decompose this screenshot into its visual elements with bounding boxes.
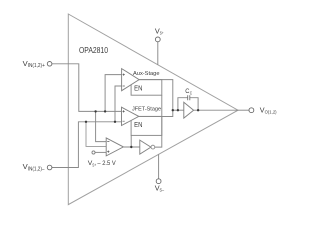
capacitor CC feedback loop right leg [190,98,198,111]
inverter [140,140,151,154]
terminal VIN- [47,165,52,170]
terminal VO [249,108,254,113]
wire comparator output up to JFET EN [130,135,132,147]
buffer amplifier [184,102,194,118]
wire comparator mid input from VIN- node [86,122,106,147]
wire output to terminal [238,109,249,111]
EN box (JFET-Stage) [131,116,162,135]
wire summing node to buffer input [173,109,184,111]
input polarity marks Aux [123,74,125,87]
wire inverter output up to Aux EN [155,95,162,147]
svg-text:O(1,2): O(1,2) [265,110,277,116]
svg-text:IN(1,2)+: IN(1,2)+ [28,63,45,69]
svg-text:OPA2810: OPA2810 [79,45,108,55]
svg-text:S+: S+ [160,31,164,37]
svg-text:Aux-Stage: Aux-Stage [133,71,160,77]
wire Aux + input from node [105,75,122,112]
wire VS- supply lead [158,154,160,179]
svg-text:S+: S+ [92,163,96,168]
input polarity marks comparator [107,142,109,153]
wire VIN+ to JFET + input [52,64,122,112]
capacitor C_C plates [188,95,190,100]
wire VS+ supply lead [157,42,159,65]
wire comparator upper input from VIN+ node [96,111,107,141]
svg-text:C: C [190,90,192,95]
svg-text:JFET-Stage: JFET-Stage [132,107,162,113]
svg-text:EN: EN [134,120,142,129]
wire Aux - input from node [115,86,122,122]
inverter bubble [151,145,155,149]
wire Aux output down to summing node [139,80,173,111]
EN box (Aux-Stage) [131,80,162,96]
wire buffer output to big apex [194,109,238,111]
terminal VIN+ [47,62,52,67]
input polarity marks JFET [123,110,125,121]
junction node dots [94,110,96,112]
svg-text:S–: S– [160,188,165,194]
amplifier Aux-Stage [122,69,140,91]
svg-text:EN: EN [134,84,142,93]
wire VIN- to JFET - input [52,122,122,168]
terminal VS- [156,179,161,184]
capacitor CC feedback loop left leg [178,98,188,111]
amplifier JFET-Stage [122,107,139,125]
terminal VS+-2.5V reference circle [92,151,95,154]
wire comparator reference input [95,151,106,153]
svg-text:IN(1,2)–: IN(1,2)– [28,166,45,172]
wire comparator output [123,146,139,148]
terminal VS+ [155,37,160,42]
svg-text:– 2.5 V: – 2.5 V [97,160,116,167]
op-amp U1 (OPA2810 overall triangle) [68,14,238,205]
comparator [106,138,123,156]
wire JFET output jog up to summing node [139,110,173,116]
